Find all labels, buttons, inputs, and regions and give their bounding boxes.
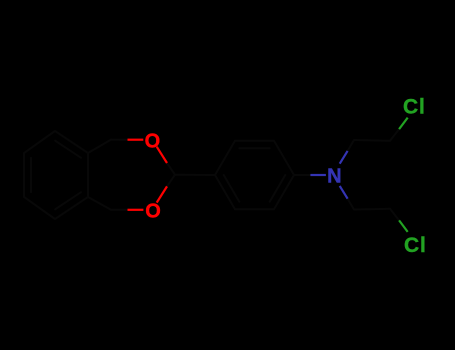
- bond N-C1' black half: [348, 140, 354, 151]
- bond O1-C3 black half: [167, 163, 175, 175]
- central ring aromatic inner lower-right: [270, 175, 286, 202]
- svg-text:N: N: [327, 165, 341, 187]
- bond N-C1' blue half: [340, 151, 348, 164]
- svg-text:Cl: Cl: [404, 234, 427, 257]
- svg-text:Cl: Cl: [403, 95, 426, 118]
- central benzene ring outline: [215, 141, 294, 209]
- bond O4-CH2 black half: [111, 209, 128, 211]
- bond C2''-Cl black half bottom: [390, 209, 399, 221]
- left benzene ring outline: [24, 131, 88, 219]
- bond N-C1'' black half: [348, 199, 354, 210]
- svg-text:O: O: [145, 130, 161, 152]
- left ring aromatic inner line 3: [55, 192, 81, 209]
- bond C3-O4 black half: [167, 175, 175, 187]
- bond C1''-C2'' bottom chain: [354, 208, 390, 211]
- bond C2''-Cl green half bottom: [399, 220, 408, 232]
- bond phenyl-N black half: [294, 174, 310, 176]
- bond CH2-ring bottom (C5-C5a): [88, 197, 111, 210]
- bond CH2-O1 red half: [128, 139, 144, 141]
- bond O4-CH2 red half: [128, 209, 144, 211]
- central ring aromatic inner lower-left: [224, 175, 240, 202]
- bond C2'-Cl green half top: [399, 118, 408, 130]
- bond CH2-O1 black half: [111, 139, 128, 141]
- bond C3-phenyl: [175, 174, 215, 176]
- bond C3-O4 red half: [157, 186, 167, 202]
- bond C1'-C2' top chain: [354, 139, 390, 142]
- left ring aromatic inner line 2: [30, 158, 32, 192]
- bond C2'-Cl black half top: [390, 129, 399, 141]
- svg-text:O: O: [145, 200, 161, 222]
- bond ring-CH2 top (C9a-C1): [88, 140, 111, 153]
- bond O1-C3 red half: [157, 147, 167, 163]
- bond N-C1'' blue half: [340, 186, 348, 199]
- bond phenyl-N blue half: [310, 174, 326, 176]
- central ring aromatic inner top: [239, 147, 269, 149]
- left ring aromatic inner line 1: [55, 141, 81, 158]
